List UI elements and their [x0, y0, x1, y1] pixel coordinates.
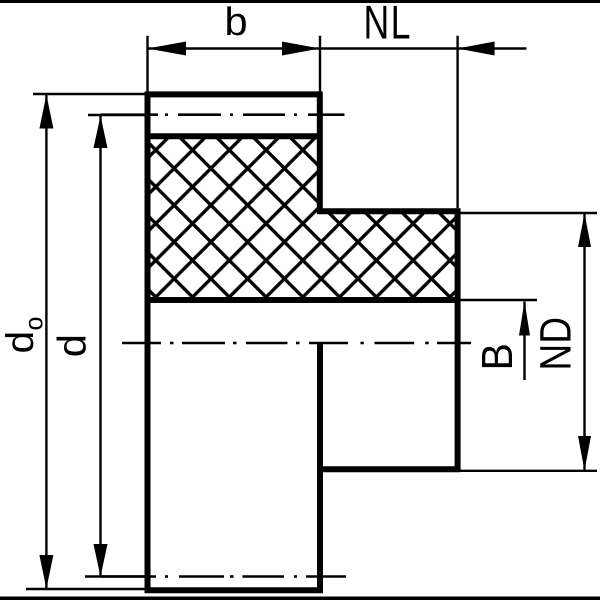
- gear right edge upper: [317, 92, 323, 214]
- da dimension line: [45, 95, 47, 589]
- hub bottom extension line: [460, 470, 597, 472]
- hatched section area: [148, 136, 458, 300]
- hub bottom edge: [317, 466, 460, 472]
- label ND: [540, 319, 570, 368]
- bottom border line: [0, 597, 600, 600]
- d bottom arrowhead: [94, 544, 108, 577]
- top pitch center line: [101, 113, 345, 116]
- b and NL dimension line: [148, 47, 527, 49]
- b right arrowhead: [282, 42, 320, 56]
- hub top extension line: [460, 212, 597, 214]
- bore axis center line: [122, 342, 471, 345]
- extension line left of b: [146, 36, 148, 92]
- d dimension line: [99, 116, 101, 577]
- label b: [227, 6, 246, 35]
- gear top edge: [145, 91, 323, 97]
- gear right edge lower: [317, 343, 323, 593]
- da bottom arrowhead: [39, 555, 53, 589]
- da bottom extension line: [26, 588, 145, 590]
- bore top extension line: [460, 299, 537, 301]
- extension line right of NL: [456, 36, 458, 208]
- gear bottom edge: [145, 587, 323, 593]
- label d: [57, 337, 86, 356]
- bore top line: [145, 297, 461, 303]
- b left arrowhead: [148, 42, 187, 56]
- tooth band bottom line: [145, 133, 323, 139]
- label d_o subscript o: [29, 318, 43, 330]
- hub right edge: [455, 208, 461, 472]
- label d_o: [5, 333, 33, 351]
- ND top arrowhead: [578, 213, 591, 247]
- top border line: [0, 0, 600, 3]
- bottom pitch center line: [101, 575, 346, 578]
- ND dimension line: [583, 213, 585, 471]
- B dimension line: [523, 302, 525, 381]
- label B: [482, 345, 512, 367]
- extension line right of b: [319, 36, 321, 92]
- da top arrowhead: [39, 95, 53, 129]
- d bottom extension line: [85, 575, 145, 577]
- B arrowhead: [519, 301, 530, 335]
- d top extension line: [88, 114, 145, 116]
- ND bottom arrowhead: [578, 436, 591, 471]
- hub top edge: [317, 208, 460, 214]
- gear left edge: [145, 92, 151, 593]
- NL right arrowhead: [458, 42, 495, 56]
- label NL: [366, 6, 409, 39]
- d top arrowhead: [94, 116, 108, 148]
- da top extension line: [33, 93, 145, 95]
